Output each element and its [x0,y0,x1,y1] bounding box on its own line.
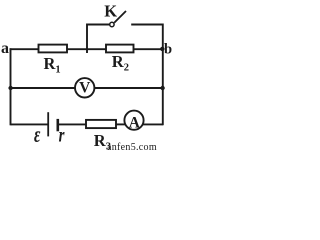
junction dot left voltmeter branch [8,86,12,90]
wire battery to R3 [59,123,86,125]
resistor R2 [106,45,134,53]
wire voltmeter branch [11,87,163,89]
svg-text:A: A [129,115,141,132]
switch K blade [114,11,126,23]
wire switch branch up [87,25,110,51]
switch K contact circle [110,22,114,26]
resistor R1 [39,45,68,53]
svg-text:a: a [1,40,9,57]
svg-text:anfen5.com: anfen5.com [107,142,157,152]
ammeter A1 circle [124,111,143,130]
wire ammeter to right corner [142,123,162,125]
wire left vertical side [10,48,12,125]
voltmeter V1 circle [75,78,94,97]
battery long plate (emf) [47,112,49,136]
battery short plate [56,119,59,131]
node b junction dot [160,47,164,51]
resistor R3 [86,120,116,128]
svg-text:b: b [164,42,172,58]
wire R1 to R2 [67,48,106,50]
wire a to R1 [10,48,39,50]
svg-text:R1: R1 [44,54,61,76]
wire switch to b corner [131,25,163,50]
wire R2 to b [134,48,163,50]
svg-text:r: r [59,125,65,146]
wire R3 to ammeter [116,123,126,125]
svg-text:ε: ε [34,122,41,148]
wire bottom left to battery [11,123,49,125]
svg-text:K: K [104,1,117,20]
junction dot right voltmeter branch [160,86,164,90]
wire right vertical side [162,48,164,125]
svg-text:R2: R2 [112,52,129,74]
svg-text:V: V [79,80,91,97]
junction switch branch [86,49,88,53]
